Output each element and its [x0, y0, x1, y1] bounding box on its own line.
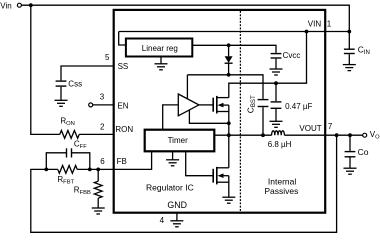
ground Q2: [222, 197, 235, 203]
svg-text:0.47 µF: 0.47 µF: [285, 102, 312, 111]
capacitor CIN: [344, 49, 355, 53]
svg-text:SS: SS: [118, 62, 129, 71]
wire FB row: [77, 168, 114, 170]
transistor Q1 body arrow: [218, 103, 224, 108]
ground linear reg: [160, 57, 162, 64]
capacitor CFF: [67, 148, 72, 157]
svg-text:FB: FB: [117, 157, 127, 166]
block Linear reg: [126, 39, 192, 57]
op-amp U1 driver: [178, 94, 199, 116]
wire SW row to timer: [214, 134, 271, 136]
wire RFBB top lead: [97, 169, 99, 181]
ground Co: [344, 168, 357, 174]
wire driver output: [199, 104, 213, 106]
wire RFBB bottom lead: [97, 198, 99, 208]
wire driver feedback to SW: [189, 110, 228, 123]
transistor Q1 high-side gate bar: [212, 98, 214, 112]
junction dot CFF left: [44, 168, 48, 172]
wire CBST to SW: [262, 107, 264, 135]
dashed separator line: [239, 11, 241, 212]
transistor Q2 channel bar: [216, 167, 218, 185]
ground RFBB: [92, 208, 105, 214]
svg-text:2: 2: [100, 123, 105, 132]
svg-text:Cvcc: Cvcc: [283, 51, 301, 60]
capacitor Co: [345, 152, 356, 157]
junction dot RFBB top: [96, 168, 100, 172]
block Timer: [145, 130, 215, 152]
diode D1: [228, 45, 230, 56]
wire left rail + RON row left: [31, 5, 60, 134]
wire SS pin to Css: [61, 66, 114, 80]
wire timer to Q2 gate: [186, 151, 214, 175]
svg-text:5: 5: [105, 53, 110, 62]
svg-text:Css: Css: [68, 79, 82, 88]
capacitor Css: [56, 81, 67, 86]
transistor Q2 drain: [217, 167, 229, 169]
wire feedback loop bottom: [31, 135, 337, 232]
wire EN pin: [93, 104, 114, 106]
wire CIN to ground: [348, 54, 350, 64]
wire SW vertical: [228, 123, 230, 168]
wire VIN internal rail: [119, 31, 350, 33]
wire VOUT row: [284, 134, 362, 136]
svg-text:6.8 µH: 6.8 µH: [268, 140, 292, 149]
svg-text:Timer: Timer: [168, 136, 188, 145]
ground GND pin: [176, 213, 178, 221]
wire BST drop to driver: [186, 75, 188, 99]
wire Co to ground: [349, 158, 351, 169]
node VO terminal: [363, 133, 367, 137]
svg-text:6: 6: [100, 157, 105, 166]
junction dot SW row: [227, 133, 231, 137]
junction dot diode cathode: [227, 73, 231, 77]
svg-text:7: 7: [328, 122, 333, 131]
svg-text:VIN: VIN: [308, 19, 322, 28]
transistor Q2 low-side gate bar: [212, 169, 214, 183]
ground Cvcc: [270, 69, 283, 75]
svg-text:Regulator IC: Regulator IC: [146, 183, 194, 193]
wire timer to driver input: [163, 105, 179, 130]
svg-text:RON: RON: [115, 125, 133, 134]
wire VIN-B rail: [229, 32, 307, 98]
svg-text:Vin: Vin: [0, 1, 11, 10]
transistor Q1 drain: [217, 97, 229, 99]
transistor Q1 channel bar: [216, 96, 218, 114]
junction dot VIN-B rail: [274, 81, 278, 85]
junction dot VIN external: [347, 30, 351, 34]
transistor Q2 source: [217, 181, 229, 183]
junction dot diode anode: [227, 43, 231, 47]
outer module box: [114, 10, 326, 213]
wire Cvcc to ground: [275, 59, 277, 69]
svg-text:Passives: Passives: [264, 186, 298, 196]
svg-text:EN: EN: [117, 101, 128, 110]
ground Css: [55, 100, 68, 106]
wire 0.47uF to ground: [275, 109, 277, 121]
svg-text:GND: GND: [167, 200, 187, 210]
junction dot SW upper: [227, 121, 231, 125]
transistor Q1 source: [217, 111, 229, 113]
resistor RFBB: [94, 181, 102, 198]
junction dot VIN rail tap: [305, 30, 309, 34]
resistor RON: [60, 131, 79, 139]
svg-text:Co: Co: [358, 147, 369, 157]
svg-text:4: 4: [160, 216, 165, 225]
svg-text:3: 3: [100, 93, 105, 102]
wire CFF branch right: [72, 153, 90, 170]
ground 0.47uF: [270, 121, 283, 127]
capacitor CBST: [258, 100, 269, 107]
junction dot Co: [348, 133, 352, 137]
wire Q1 source to SW: [228, 105, 230, 123]
junction dot Vin: [29, 3, 33, 7]
ground timer: [172, 152, 174, 160]
wire BST rail: [187, 75, 263, 99]
wire Q2 source to ground: [228, 176, 230, 198]
junction dot CBST bottom: [261, 133, 265, 137]
wire VCC rail: [192, 45, 276, 53]
wire Vin top rail to CIN: [21, 5, 349, 48]
wire 0.47uF top lead: [275, 83, 277, 101]
node EN terminal: [89, 103, 93, 107]
resistor RFBT: [58, 166, 77, 174]
junction dot CFF right: [88, 168, 92, 172]
ground CIN: [343, 65, 356, 71]
inductor L1: [272, 131, 285, 135]
wire FB to timer: [114, 151, 152, 169]
wire Co top lead: [349, 135, 351, 151]
wire RON to pin 2: [79, 133, 114, 135]
wire CFF branch left: [46, 153, 66, 170]
svg-text:VOUT: VOUT: [299, 124, 321, 133]
wire Css to ground: [60, 87, 62, 101]
wire VIN rail to linear reg: [119, 32, 126, 46]
svg-text:1: 1: [327, 19, 332, 28]
junction dot VOUT feedback: [335, 133, 339, 137]
transistor Q2 body arrow: [218, 173, 224, 178]
node Vin terminal: [17, 3, 21, 7]
svg-text:Linear reg: Linear reg: [142, 44, 178, 53]
capacitor Cvcc: [271, 54, 282, 58]
capacitor 0.47uF: [271, 102, 282, 108]
